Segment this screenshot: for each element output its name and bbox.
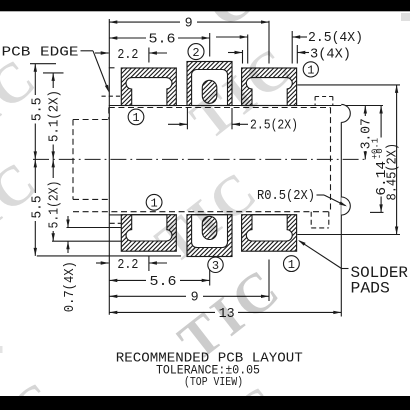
svg-text:0.7(4X): 0.7(4X) — [62, 261, 78, 312]
svg-text:2.2: 2.2 — [117, 47, 138, 63]
svg-text:2.5(4X): 2.5(4X) — [308, 30, 363, 46]
svg-text:5.6: 5.6 — [149, 31, 176, 47]
svg-text:PADS: PADS — [351, 279, 390, 297]
svg-text:1: 1 — [307, 64, 314, 78]
svg-text:5.1(2X): 5.1(2X) — [46, 90, 62, 142]
svg-text:3: 3 — [212, 259, 219, 273]
svg-text:9: 9 — [185, 16, 193, 32]
svg-text:1: 1 — [150, 197, 157, 211]
svg-text:(TOP VIEW): (TOP VIEW) — [184, 375, 243, 389]
svg-text:2.2: 2.2 — [117, 257, 138, 273]
svg-text:2: 2 — [192, 46, 199, 60]
svg-text:5.1(2X): 5.1(2X) — [46, 181, 62, 229]
svg-text:3(4X): 3(4X) — [310, 46, 351, 62]
svg-text:1: 1 — [132, 111, 139, 125]
svg-text:5.6: 5.6 — [150, 274, 177, 290]
svg-text:8.45(2X): 8.45(2X) — [384, 143, 400, 201]
svg-text:1: 1 — [288, 258, 295, 272]
